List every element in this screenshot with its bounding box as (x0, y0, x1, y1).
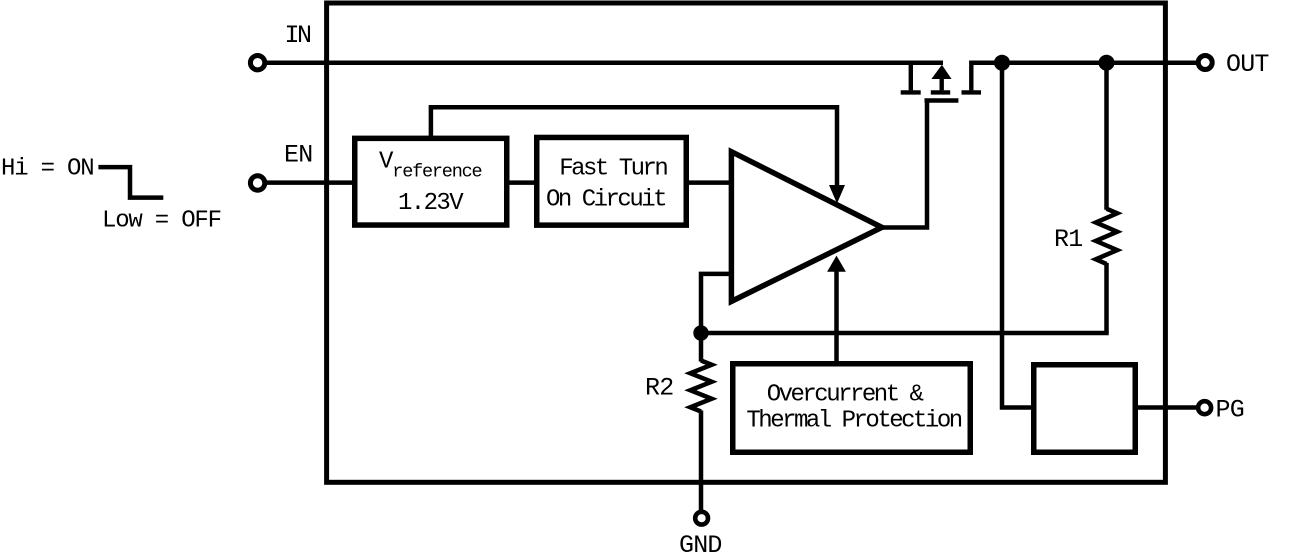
svg-text:Low = OFF: Low = OFF (102, 208, 221, 235)
svg-text:OUT: OUT (1226, 50, 1269, 79)
pin PG terminal (1198, 401, 1211, 414)
wire amplifier output to pass transistor gate (879, 101, 927, 228)
transistor Q1 body arrowhead (931, 65, 951, 79)
svg-text:Overcurrent &: Overcurrent & (767, 382, 924, 409)
transistor Q1 pass PMOS gate bar (925, 98, 959, 102)
wire Vreference top to gate drive (reference feed) (431, 107, 837, 189)
wire feedback line (701, 331, 1109, 336)
wire overcurrent sense arrow into amplifier bottom (834, 270, 839, 361)
transistor Q1 source bar (901, 90, 921, 94)
wire node A to PG comparator (1002, 63, 1032, 408)
arrowhead into amplifier bottom (827, 256, 846, 272)
svg-text:R1: R1 (1054, 225, 1082, 254)
transistor Q1 drain lead (969, 61, 973, 91)
svg-text:Thermal Protection: Thermal Protection (746, 408, 961, 435)
transistor Q1 source lead (909, 61, 913, 91)
wire IN rail (267, 60, 944, 65)
svg-text:R2: R2 (645, 374, 673, 403)
wire node B down to R1 (1104, 63, 1109, 210)
pin GND terminal (695, 512, 708, 525)
op-amp U1 error amplifier (731, 152, 882, 302)
wire EN to Vreference (267, 180, 355, 185)
block Overcurrent & Thermal Protection (733, 364, 971, 453)
wire R2 to GND pin (699, 411, 704, 512)
arrowhead into amplifier top (829, 185, 845, 204)
resistor R2 (690, 361, 711, 412)
svg-text:PG: PG (1216, 396, 1244, 425)
block Vreference 1.23V (355, 138, 507, 225)
pin EN terminal (250, 176, 264, 190)
wire Fast Turn On to error amplifier input (686, 180, 731, 185)
svg-text:Hi = ON: Hi = ON (1, 156, 93, 183)
svg-text:1.23V: 1.23V (398, 190, 464, 217)
transistor Q1 body bar (931, 90, 950, 94)
block PG comparator (1034, 365, 1136, 453)
wire R1 bottom to feedback line (1104, 263, 1109, 333)
enable step waveform (98, 167, 163, 198)
IC boundary box (327, 3, 1166, 482)
pin IN terminal (250, 56, 264, 70)
node A junction dot (994, 55, 1010, 71)
wire PG comparator to PG pin (1136, 405, 1197, 410)
svg-text:reference: reference (392, 162, 481, 183)
wire drain to OUT (971, 60, 1196, 65)
svg-text:EN: EN (284, 141, 312, 170)
block Fast Turn On Circuit (537, 137, 687, 225)
resistor R1 (1096, 209, 1117, 264)
node B junction dot (1099, 55, 1115, 71)
svg-text:IN: IN (285, 21, 312, 50)
wire node C to R2 (699, 333, 704, 362)
transistor Q1 drain bar (962, 90, 982, 94)
svg-text:Fast Turn: Fast Turn (559, 155, 667, 182)
transistor Q1 body arrow stem (940, 77, 944, 90)
node C feedback junction dot (693, 325, 708, 340)
wire Vreference to Fast Turn On (507, 180, 537, 185)
svg-text:On Circuit: On Circuit (546, 186, 665, 213)
svg-text:GND: GND (679, 531, 722, 558)
pin OUT terminal (1198, 56, 1212, 70)
wire inverting input from feedback node (701, 274, 731, 333)
